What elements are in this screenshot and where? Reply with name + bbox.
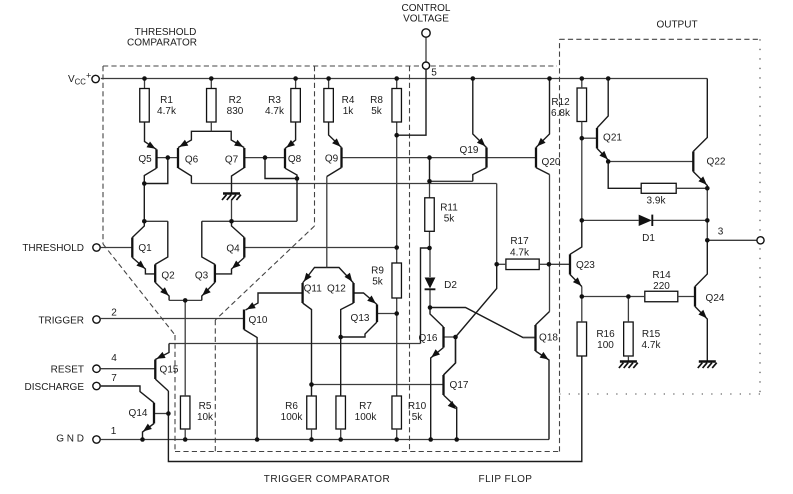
svg-text:5: 5 [431,68,437,79]
svg-text:R2: R2 [229,95,242,106]
svg-text:10k: 10k [197,412,214,423]
svg-text:Q24: Q24 [706,293,725,304]
svg-text:R3: R3 [268,95,281,106]
svg-text:R12: R12 [551,97,570,108]
svg-text:Q11: Q11 [304,283,323,294]
svg-text:3.9k: 3.9k [647,196,667,207]
svg-text:R14: R14 [652,270,671,281]
svg-text:THRESHOLD: THRESHOLD [22,243,84,254]
svg-text:FLIP FLOP: FLIP FLOP [479,474,533,485]
svg-text:VOLTAGE: VOLTAGE [403,14,449,25]
svg-text:Q8: Q8 [288,154,302,165]
svg-text:830: 830 [227,106,244,117]
svg-text:4.7k: 4.7k [265,106,285,117]
svg-text:3: 3 [718,227,724,238]
svg-text:Q1: Q1 [138,243,152,254]
svg-text:Q23: Q23 [576,260,595,271]
svg-text:Q16: Q16 [419,333,438,344]
svg-text:D1: D1 [642,233,655,244]
svg-text:Q12: Q12 [327,283,346,294]
svg-text:Q17: Q17 [450,380,469,391]
svg-text:Q6: Q6 [185,155,199,166]
svg-text:1k: 1k [343,106,355,117]
svg-text:R11: R11 [440,203,458,214]
svg-text:6.8k: 6.8k [551,108,571,119]
svg-text:Q7: Q7 [225,155,239,166]
svg-text:Q9: Q9 [325,154,339,165]
svg-text:Q10: Q10 [249,315,268,326]
svg-text:TRIGGER: TRIGGER [38,316,84,327]
svg-text:5k: 5k [444,214,456,225]
svg-text:G N D: G N D [56,434,84,445]
svg-text:COMPARATOR: COMPARATOR [127,38,197,49]
svg-text:4.7k: 4.7k [510,248,530,259]
svg-text:Q2: Q2 [161,271,175,282]
svg-text:5k: 5k [371,106,383,117]
svg-text:Q4: Q4 [226,244,240,255]
svg-text:100k: 100k [355,412,378,423]
svg-text:DISCHARGE: DISCHARGE [25,382,85,393]
svg-text:Q22: Q22 [707,157,726,168]
svg-text:7: 7 [111,373,117,384]
svg-text:5k: 5k [372,277,384,288]
svg-text:R5: R5 [199,401,212,412]
svg-text:Q21: Q21 [603,133,622,144]
svg-text:R10: R10 [408,401,427,412]
svg-text:1: 1 [111,426,117,437]
svg-text:RESET: RESET [51,365,84,376]
svg-text:Q14: Q14 [129,408,148,419]
svg-text:R8: R8 [370,95,383,106]
svg-text:Q15: Q15 [160,365,179,376]
svg-text:Q18: Q18 [539,333,558,344]
svg-text:220: 220 [653,281,670,292]
svg-text:4: 4 [111,353,117,364]
svg-text:R17: R17 [510,236,529,247]
svg-text:R16: R16 [596,329,615,340]
svg-text:4.7k: 4.7k [157,106,177,117]
svg-text:Q3: Q3 [195,271,209,282]
svg-text:D2: D2 [444,280,457,291]
svg-text:R7: R7 [359,401,372,412]
svg-text:100: 100 [597,340,614,351]
svg-text:CONTROL: CONTROL [402,3,451,14]
svg-text:R4: R4 [342,95,355,106]
svg-text:5k: 5k [412,412,424,423]
svg-text:R15: R15 [642,329,661,340]
svg-text:4.7k: 4.7k [642,340,662,351]
svg-text:R6: R6 [285,401,298,412]
svg-text:2: 2 [111,308,117,319]
svg-text:Q5: Q5 [138,154,152,165]
svg-text:100k: 100k [281,412,304,423]
svg-text:R1: R1 [160,95,173,106]
svg-text:OUTPUT: OUTPUT [656,20,697,31]
svg-text:TRIGGER COMPARATOR: TRIGGER COMPARATOR [264,474,390,485]
svg-text:Q13: Q13 [351,313,370,324]
svg-text:Q20: Q20 [542,157,561,168]
svg-text:Q19: Q19 [460,145,479,156]
svg-text:THRESHOLD: THRESHOLD [135,27,197,38]
svg-text:R9: R9 [371,266,384,277]
